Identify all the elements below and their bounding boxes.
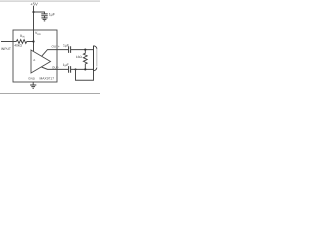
wire resistor to input node (27, 41, 34, 43)
capacitor C1 bypass 1uF (41, 14, 47, 16)
svg-text:OUT-: OUT- (52, 65, 59, 69)
capacitor C2 coupling 1uF (69, 46, 71, 53)
resistor RL load (83, 50, 87, 70)
svg-text:OUT+: OUT+ (52, 45, 60, 49)
svg-text:GND: GND (28, 77, 36, 81)
junction dot input node (32, 40, 34, 42)
svg-text:INPUT: INPUT (1, 47, 11, 51)
wire sleeve return rail (76, 69, 94, 80)
svg-text:16Ω: 16Ω (76, 55, 83, 59)
wire GND pin to ground (32, 82, 34, 85)
wire +5V vertical to VDD pin (33, 6, 35, 51)
junction dot at RL top (84, 49, 86, 51)
svg-text:1µF: 1µF (49, 13, 56, 17)
op-amp U1 MAX9717 package box (13, 30, 57, 82)
svg-text:A: A (33, 58, 35, 62)
op-amp U1 amplifier triangle (31, 50, 51, 73)
ground below U1 (30, 85, 36, 88)
connector J1 headphone jack (93, 46, 95, 71)
page top border (0, 1, 100, 2)
page bottom rule (0, 92, 100, 95)
wire OUT+ takeoff diagonal (42, 50, 69, 57)
junction dot at bypass branch (32, 11, 34, 13)
wire bypass branch horizontal (34, 12, 45, 14)
junction dot at RL bottom (84, 68, 86, 70)
svg-text:RIN: RIN (20, 34, 25, 39)
svg-text:VDD: VDD (35, 31, 41, 36)
svg-text:1µF: 1µF (63, 43, 69, 47)
wire OUT- takeoff diagonal (42, 67, 69, 69)
svg-text:1µF: 1µF (63, 63, 69, 67)
svg-text:+5V: +5V (30, 1, 38, 6)
resistor RIN (16, 40, 26, 44)
ground below C1 (41, 18, 47, 21)
wire cap to ground (44, 16, 46, 18)
capacitor C3 coupling 1uF (69, 66, 71, 73)
svg-text:MAX9717: MAX9717 (40, 77, 55, 81)
svg-text:40kΩ: 40kΩ (14, 43, 22, 47)
junction dot sleeve tap (75, 68, 77, 70)
wire OUT+ to jack tip (71, 49, 94, 51)
wire input from left edge (1, 41, 16, 43)
wire OUT- to bottom rail (71, 68, 94, 70)
